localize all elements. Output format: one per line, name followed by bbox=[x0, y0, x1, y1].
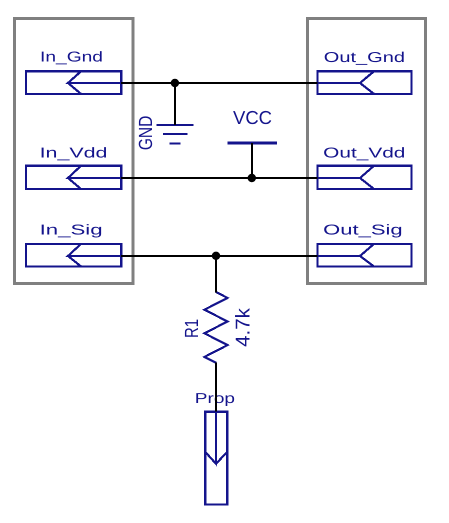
svg-text:GND: GND bbox=[136, 116, 157, 151]
svg-text:In_Vdd: In_Vdd bbox=[40, 146, 108, 162]
svg-text:Out_Vdd: Out_Vdd bbox=[323, 146, 405, 162]
svg-text:4.7k: 4.7k bbox=[233, 307, 255, 347]
svg-text:In_Sig: In_Sig bbox=[40, 223, 103, 239]
svg-text:Prop: Prop bbox=[195, 391, 235, 407]
svg-text:R1: R1 bbox=[182, 319, 203, 338]
svg-text:Out_Gnd: Out_Gnd bbox=[324, 50, 405, 66]
svg-text:In_Gnd: In_Gnd bbox=[40, 50, 103, 66]
svg-text:Out_Sig: Out_Sig bbox=[323, 223, 402, 239]
svg-text:VCC: VCC bbox=[233, 107, 272, 128]
